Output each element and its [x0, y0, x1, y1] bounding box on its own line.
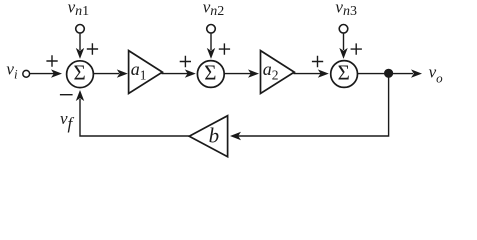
- svg-text:Σ: Σ: [73, 61, 85, 85]
- svg-text:Σ: Σ: [338, 61, 350, 85]
- svg-text:Σ: Σ: [204, 61, 216, 85]
- svg-text:b: b: [209, 124, 220, 148]
